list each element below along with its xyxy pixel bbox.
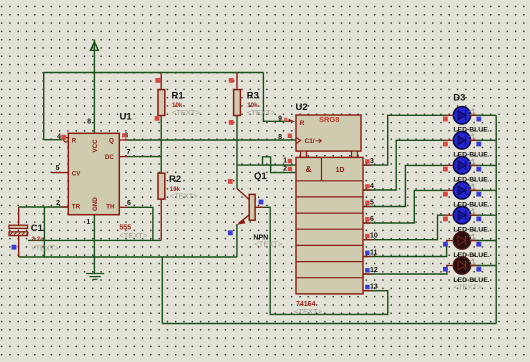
LED D3 cathode probe square — [476, 167, 481, 172]
LED D7 cathode probe square — [476, 267, 481, 272]
svg-text:Q1: Q1 — [254, 171, 267, 182]
svg-text:R1: R1 — [172, 91, 185, 102]
LED D2 cathode probe square — [476, 142, 481, 147]
LED D2 LED-BLUE — [446, 132, 478, 149]
wire long bottom rail — [162, 323, 496, 325]
wire U2 pin 1 input — [237, 164, 297, 166]
U2 pin 6 probe square — [365, 217, 369, 221]
LED D5 anode probe square — [443, 217, 448, 222]
svg-text:2: 2 — [283, 165, 287, 172]
svg-text:3: 3 — [370, 158, 374, 165]
wire bottom horizontal to R2 — [28, 239, 161, 241]
wire U2 pin 4 to LED 2 — [363, 140, 446, 190]
wire LED 2 cathode to rail — [470, 139, 496, 141]
wire LED 1 cathode to rail — [470, 114, 496, 116]
LED D3 LED-BLUE — [446, 157, 478, 174]
svg-text:1: 1 — [86, 219, 90, 226]
U2 right pin stubs — [363, 165, 371, 291]
wire LED 3 cathode to rail — [470, 164, 496, 166]
svg-text:6: 6 — [127, 200, 131, 207]
wire LED 5 cathode to rail — [470, 214, 496, 216]
wire left drop to U1 reset — [43, 73, 45, 140]
wire C1 bottom lead — [18, 235, 20, 257]
U1 pin stub Q pin 3 — [119, 139, 128, 141]
IC U2 74164 control block — [296, 115, 361, 151]
wire ground rail drop — [161, 257, 163, 324]
wire U1 VCC pin 8 — [93, 73, 95, 134]
wire VCC top rail — [44, 72, 264, 74]
U2 pin 10 probe square — [365, 234, 369, 238]
svg-text:R3: R3 — [247, 91, 259, 102]
wire rail to U2 pin 9 reset — [263, 73, 287, 122]
wire LED 4 cathode to rail — [470, 189, 496, 191]
LED D4 cathode probe square — [476, 192, 481, 197]
LED D1 cathode probe square — [476, 117, 481, 122]
LED D2 anode probe square — [443, 142, 448, 147]
wire U2 pin 10 to LED 5 — [363, 215, 446, 240]
wire TR node down to ground rail — [43, 207, 45, 257]
svg-text:C1: C1 — [31, 223, 44, 234]
svg-text:SRG8: SRG8 — [319, 115, 339, 124]
Q1 collector lead — [237, 189, 249, 200]
Q1 emitter lead with arrow — [239, 215, 250, 224]
svg-text:5: 5 — [370, 199, 374, 206]
wire U1 Q to U2 clock — [127, 139, 296, 141]
svg-text:10: 10 — [370, 233, 378, 240]
U2 pin 3 probe square — [365, 159, 369, 163]
capacitor C1 bottom plate — [9, 232, 28, 236]
R1 top probe square — [155, 78, 160, 83]
U2 pin 8 probe square — [288, 134, 292, 138]
svg-text:4: 4 — [370, 183, 374, 190]
wire R2 bottom lead — [160, 199, 162, 240]
svg-text:6: 6 — [370, 216, 374, 223]
LED D5 LED-BLUE — [446, 207, 478, 224]
svg-text:DC: DC — [105, 154, 114, 161]
U1 pin 4 probe square — [61, 135, 66, 140]
svg-text:<TEXT>: <TEXT> — [454, 283, 483, 292]
svg-text:R: R — [300, 120, 305, 127]
svg-text:CV: CV — [72, 170, 81, 177]
IC U2 74164 main block — [296, 157, 363, 294]
svg-text:4: 4 — [57, 133, 61, 140]
svg-text:TH: TH — [106, 204, 115, 211]
LED D5 cathode probe square — [476, 217, 481, 222]
U1 pin 3 probe square — [122, 133, 126, 137]
svg-text:1: 1 — [283, 158, 287, 165]
svg-text:<TEXT>: <TEXT> — [294, 307, 323, 316]
LED D6 cathode probe square — [476, 242, 481, 247]
wire Q1 base to U2 pin 13 loop — [255, 207, 388, 314]
svg-text:<TEXT>: <TEXT> — [31, 244, 60, 253]
op-amp U1 555 timer body — [68, 133, 119, 214]
svg-text:VCC: VCC — [92, 139, 99, 153]
svg-text:<TEXT>: <TEXT> — [170, 192, 199, 201]
svg-text:<TEXT>: <TEXT> — [119, 231, 148, 240]
C1 bottom probe square — [12, 245, 17, 250]
U2 pin 1 probe square — [288, 159, 292, 163]
U2 clock wedge — [296, 137, 301, 143]
U2 left pin stubs — [288, 120, 289, 122]
LED D3 anode probe square — [443, 167, 448, 172]
U2 row dividers — [296, 180, 363, 182]
U1 pin stub TH pin 6 — [119, 206, 128, 208]
R3 top probe square — [229, 78, 234, 83]
svg-text:R: R — [72, 137, 77, 144]
wire U1 GND pin 1 to ground — [93, 215, 95, 274]
wire Q1 emitter down — [236, 224, 238, 257]
U2 pin 12 probe square — [365, 268, 369, 272]
svg-text:9: 9 — [278, 116, 282, 123]
wire DC pin 7 to divider node — [127, 156, 161, 158]
svg-text:U1: U1 — [120, 112, 133, 123]
power symbol VCC arrow — [93, 40, 95, 73]
U1 reset bubble — [64, 137, 69, 142]
svg-text:2: 2 — [56, 200, 60, 207]
LED D7 anode probe square — [443, 267, 448, 272]
U2 pin 13 probe square — [365, 285, 369, 289]
svg-text:&: & — [306, 164, 312, 174]
svg-text:1D: 1D — [336, 167, 345, 174]
wire R1 bottom to R2 top through DC node — [160, 116, 162, 174]
U2 pin 4 probe square — [365, 184, 369, 188]
svg-text:R2: R2 — [169, 174, 181, 185]
svg-text:11: 11 — [370, 249, 378, 256]
Q1 collector probe square — [228, 179, 233, 184]
wire U2 pin 6 to LED 4 — [363, 190, 446, 223]
transistor Q1 base bar — [249, 194, 255, 220]
LED D7 LED-BLUE — [446, 257, 478, 274]
U2 first row divider vertical — [321, 157, 323, 180]
U2 block connector tabs — [301, 151, 307, 157]
LED D6 anode probe square — [443, 242, 448, 247]
U1 pin stub TR pin 2 — [61, 206, 68, 208]
wire U2 pin 5 to LED 3 — [363, 165, 446, 206]
svg-text:Q: Q — [109, 137, 114, 144]
U2 reset polarity wedge — [289, 119, 296, 122]
wire LED 6 cathode to rail — [470, 240, 496, 242]
svg-text:C1/: C1/ — [305, 138, 315, 145]
wire ground rail bottom left — [19, 256, 237, 258]
svg-text:8: 8 — [278, 134, 282, 141]
U1 pin stub DC pin 7 — [119, 156, 128, 158]
R1 top lead — [160, 73, 162, 90]
svg-text:GND: GND — [92, 197, 99, 211]
LED D4 anode probe square — [443, 192, 448, 197]
resistor R1 body — [158, 90, 165, 116]
wire R3 top lead to rail — [236, 73, 238, 90]
wire U2 pin 12 to LED 7 — [363, 266, 447, 275]
wire C1 top lead — [18, 207, 20, 225]
svg-text:12: 12 — [370, 267, 378, 274]
wire TH pin 6 route — [127, 207, 153, 240]
wire R3 bottom to Q1 collector — [236, 116, 238, 189]
svg-text:<TEXT>: <TEXT> — [247, 108, 276, 117]
svg-text:D3: D3 — [453, 93, 465, 104]
U1 pin stub CV pin 5 — [52, 172, 68, 174]
svg-text:2.2u: 2.2u — [31, 236, 44, 243]
svg-text:U2: U2 — [296, 102, 308, 113]
LED D1 LED-BLUE — [446, 107, 478, 124]
svg-text:TR: TR — [72, 204, 81, 211]
capacitor C1 top plate — [9, 225, 28, 228]
wire U2 pin 3 to LED 1 — [363, 115, 446, 165]
resistor R2 body — [158, 173, 165, 199]
U2 pin 5 probe square — [365, 201, 369, 205]
Q1 emitter probe square — [228, 230, 233, 235]
U2 pin 11 probe square — [365, 251, 369, 255]
U2 pin 2 probe square — [288, 167, 292, 171]
U2 pin 9 probe square — [284, 118, 288, 122]
wire LED cathode rail — [495, 115, 497, 323]
LED D6 LED-BLUE — [446, 232, 478, 249]
Q1 base probe square — [259, 200, 264, 205]
R1 bottom probe square — [155, 116, 160, 121]
svg-text:<TEXT>: <TEXT> — [254, 240, 283, 249]
svg-text:7: 7 — [127, 149, 131, 156]
LED D1 anode probe square — [443, 117, 448, 122]
resistor R3 body — [234, 90, 241, 116]
wire hop to U2 pin 2 input — [263, 157, 297, 173]
svg-text:8: 8 — [87, 119, 91, 126]
ground symbol — [86, 273, 104, 275]
LED D4 LED-BLUE — [446, 182, 478, 199]
wire LED 7 cathode to rail — [470, 265, 496, 267]
svg-text:5: 5 — [56, 165, 60, 172]
wire U2 pin 11 to LED 6 — [363, 241, 447, 257]
svg-text:13: 13 — [370, 283, 378, 290]
svg-text:<TEXT>: <TEXT> — [172, 108, 201, 117]
wire to U1 R pin — [44, 139, 63, 141]
R3 bottom probe square — [229, 120, 234, 125]
Q1 base lead — [255, 206, 263, 208]
wire TR pin 2 left — [19, 206, 69, 208]
